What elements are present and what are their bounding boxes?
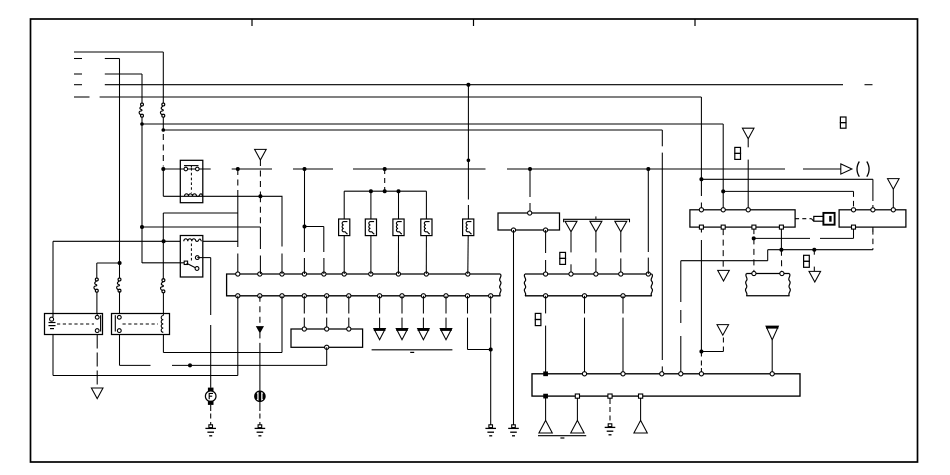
wire y124 (142, 123, 723, 125)
wire R2 out (197, 257, 210, 259)
wire x163 to coil (162, 169, 164, 196)
ECM strip1 bottom pin 8 (400, 294, 404, 298)
wire x781 drop (780, 229, 782, 250)
ECM strip2 top pin 3 (594, 272, 598, 276)
inline connector sq low (535, 313, 541, 319)
wire y169 seg3 (293, 168, 333, 170)
wire x545 to strip2 (545, 230, 547, 253)
ECM strip1 bottom pin 2 (258, 294, 262, 298)
B2 contact top (117, 315, 121, 319)
B1 contact top (95, 315, 99, 319)
ECM strip1 top pin 1 (236, 272, 240, 276)
wire x119 fuse to box2 (119, 291, 121, 313)
node x648 y169 (646, 167, 650, 171)
wire x53 drop (52, 241, 54, 313)
node x384 y191 (383, 189, 387, 193)
wire pin6 drop (348, 296, 350, 314)
ignition switch box R (839, 210, 906, 227)
main box bottom pin d (639, 394, 643, 398)
wire pin1 drop (237, 296, 239, 376)
relay R2 contact in (184, 261, 187, 264)
wire x371 drop (370, 191, 372, 219)
ground triangle G2 (396, 329, 408, 340)
wire pin12 drop (490, 296, 492, 314)
wire x753 dashed a (753, 229, 755, 238)
ign L top pin 3 (746, 208, 750, 212)
wire x648 drop (647, 169, 649, 252)
wire x304 drop (304, 169, 306, 227)
node x304 y226 (303, 225, 307, 229)
wire battery feed x163 (162, 52, 164, 103)
wire gnd drop a (545, 396, 547, 420)
harness arrow down (257, 327, 263, 333)
wire x119 lower (119, 335, 121, 366)
node x468 y160 (467, 159, 471, 163)
ECM strip1 top pin 10 (466, 272, 470, 276)
ECM strip1 top pin 6 (342, 272, 346, 276)
wire y352 link (163, 352, 282, 354)
triangle connector T5 (742, 128, 754, 139)
ground triangle G1 (374, 329, 386, 340)
ground bus underline (372, 349, 453, 351)
wire y169 seg4 (353, 168, 486, 170)
wire inj4 to pin (425, 236, 427, 274)
fuse F2 (118, 278, 121, 281)
wire gnd drop c (609, 398, 611, 404)
relay R1 actuator dashed (190, 168, 192, 193)
wire x238 dashed drop (237, 169, 239, 196)
node x701 y351 (699, 350, 703, 354)
wire x753 dashed b (753, 238, 755, 273)
wire y241 left (53, 240, 180, 242)
fuel pump motor F (208, 388, 214, 392)
wire y213 link (163, 212, 238, 214)
wire x781 dashed (780, 250, 782, 274)
wire x282 drop (281, 196, 283, 246)
node x530 y169 (528, 167, 532, 171)
main box bottom pin c (608, 394, 612, 398)
ground up-triangle b (571, 420, 584, 433)
top border tick 3 (694, 19, 696, 26)
ign R top pin 1 (851, 208, 855, 212)
wire y349 link (468, 349, 491, 351)
component box B2 (112, 314, 170, 335)
ECM strip1 top pin 5 (322, 272, 326, 276)
bus line D (105, 84, 843, 86)
wire y263 to R2 (142, 262, 184, 264)
wire T5 drop (747, 139, 749, 148)
ground triangle G3 (418, 329, 430, 340)
chassis ground x513 (512, 425, 516, 428)
relay R1 box (180, 160, 203, 202)
ign R bottom tick (872, 227, 874, 232)
node x142 y124 (140, 122, 144, 126)
ground triangle mid (717, 325, 729, 336)
triangle trio bar (564, 219, 630, 222)
bus line A (74, 51, 163, 53)
wire R1 coil out (163, 195, 282, 197)
pump motor P (255, 391, 265, 401)
connector C1 bottom pin b (544, 228, 548, 232)
node x238 y169 (236, 167, 240, 171)
wire x384 dashed (384, 169, 386, 191)
wire y191 link (723, 190, 853, 192)
relay R1 coil (185, 194, 197, 196)
wire x398 drop (398, 191, 400, 219)
node x753 y238 (752, 236, 756, 240)
node x371 y191 (369, 189, 373, 193)
wire x513 to ground (513, 230, 515, 425)
bus line E (100, 96, 702, 98)
B2 contact bottom (117, 329, 121, 333)
node x304 y169 (303, 167, 307, 171)
ECM strip2 outline (525, 273, 652, 275)
wire T4 drop (620, 232, 622, 253)
B1 sensor symbol (50, 317, 54, 321)
wire y249 link (768, 249, 873, 251)
wire x723 tri tail (722, 336, 724, 351)
triangle connector T3 (590, 221, 602, 232)
wire x97 below box1 (96, 335, 98, 389)
bus line C stub (74, 73, 82, 75)
ground up-triangle d (634, 420, 647, 433)
wire y375 link (53, 375, 238, 377)
bus line C (105, 73, 142, 75)
ign L bottom pin 1 (699, 225, 703, 229)
wire T6 drop (892, 189, 894, 208)
ECM strip2 top pin 4 (619, 272, 623, 276)
inline connector sq T5 (735, 147, 741, 153)
wire y260 link (681, 260, 768, 262)
wire pin2 dashed drop b (259, 332, 261, 346)
wire x702 to ign (700, 179, 702, 196)
B1 contact bar (100, 315, 102, 331)
relay R2 actuator dashed (190, 244, 192, 262)
ECM strip1 top pin 9 (424, 272, 428, 276)
ECM strip1 bottom pin 12 (489, 294, 493, 298)
node x119 y263 (118, 261, 122, 265)
harness arrow triangle (766, 326, 778, 340)
wire x662 long (661, 153, 663, 360)
connector box C1 (498, 213, 560, 230)
ECM strip1 bottom pin 1 (236, 294, 240, 298)
chassis ground pump P (258, 425, 262, 428)
bus line B stub (74, 58, 82, 60)
wire x163 fuse to node (162, 118, 164, 132)
injector 4 (421, 219, 432, 236)
wire x163 box2 drop (162, 335, 164, 353)
harness connector box (747, 273, 790, 275)
wire x344 corner (343, 191, 345, 219)
ECM strip2 bottom pin 2 (582, 294, 586, 298)
wire motorP to gnd (259, 402, 261, 412)
wire box3 to y365 (326, 347, 328, 365)
harness connector pin a (752, 271, 756, 275)
injector 2 (365, 219, 376, 236)
node x260 y196 (258, 194, 262, 198)
wire x701 to box (700, 352, 702, 369)
fuse F1 (162, 103, 165, 106)
ign R top pin 3 (891, 208, 895, 212)
ECM strip2 top pin 5 (646, 272, 650, 276)
ECM strip1 bottom pin 7 (378, 294, 382, 298)
ECM strip1 bottom pin 3 (280, 294, 284, 298)
ground triangle G4 (440, 329, 452, 340)
wire y169 seg5 (507, 168, 785, 170)
ign R bottom pin 1 (852, 225, 856, 229)
main box top pin sq (544, 372, 548, 376)
inline connector sq T2 (560, 252, 566, 258)
wire x853 lower (853, 229, 855, 238)
chassis ground x610 (608, 424, 612, 427)
wire x853 drop (853, 191, 855, 207)
node x163 y241 (162, 239, 166, 243)
top border tick 1 (251, 19, 253, 26)
ECM strip1 bottom pin 11 (465, 294, 469, 298)
ign L bottom pin 4 (779, 225, 783, 229)
ECM strip1 bottom pin 5 (325, 294, 329, 298)
main box top pin d (660, 372, 664, 376)
injector 3 (393, 219, 404, 236)
wire x545 lower (545, 296, 547, 314)
main box bottom pin sq (544, 394, 548, 398)
wire x723 lower dashed (722, 229, 724, 270)
ECM strip1 top pin 2 (258, 272, 262, 276)
wire x584 lower (584, 296, 586, 314)
wire T2 drop b (570, 264, 572, 274)
wire y169 seg2 (232, 168, 272, 170)
wire x723 corner drop (722, 124, 724, 191)
ECM strip1 bottom pin 6 (347, 294, 351, 298)
wire y238 link b (820, 237, 854, 239)
main box top pin f (699, 372, 703, 376)
B1 dashed link (57, 323, 94, 325)
wire y238 link a (754, 237, 810, 239)
wire x304 to pin (303, 227, 305, 253)
injector 1 (339, 219, 350, 236)
wire gnd drop d (640, 398, 642, 420)
main box bottom pin b (575, 394, 579, 398)
off-page parens (857, 162, 859, 177)
wire x97 fuse to box1 (96, 292, 98, 313)
wire x814 dashed (813, 250, 815, 256)
sensor box B3 top pin c (347, 327, 351, 331)
main harness box (532, 374, 800, 396)
relay R1 contact bar (184, 165, 199, 167)
wire x238 lower drop (237, 254, 239, 275)
wire x702 bus drop (700, 97, 702, 179)
node x490 y349 (489, 348, 493, 352)
ECM strip1 outline (227, 274, 501, 296)
wire x723 to ign (722, 191, 724, 207)
wire feed x119 (119, 59, 121, 278)
wire x260 node to y227 (259, 196, 261, 227)
connector C1 top pin (528, 211, 532, 215)
node x163 y130 (162, 128, 166, 132)
wire x163 y213 to y241 (162, 213, 164, 279)
bus line D stub (74, 84, 82, 86)
relay R2 contact up (195, 256, 199, 260)
wire T3 drop (595, 232, 597, 253)
wire x701 lower solid (700, 240, 702, 352)
node x702 y179 (699, 177, 703, 181)
top border tick 2 (473, 19, 475, 26)
bus line E stub (74, 96, 90, 98)
wire y169 relay segment (163, 168, 210, 170)
relay R2 coil (184, 239, 196, 241)
bus line D break stub (865, 84, 873, 86)
wire y226 branch (305, 226, 324, 228)
fuse F3 (141, 103, 144, 106)
wire pin2 to motor (259, 346, 261, 391)
B2 dashed link (123, 323, 159, 325)
wire pin9 drop (422, 296, 424, 314)
wire x814 dashed b (813, 267, 815, 272)
wire pin11 drop (467, 296, 469, 314)
wire y169 seg6 (803, 168, 841, 170)
bus line B (105, 58, 120, 60)
sensor box B3 (291, 329, 363, 347)
wire inj2 to pin (370, 236, 372, 274)
wire x210 drop lower (210, 325, 212, 388)
inline connector sq x814 (804, 255, 810, 261)
wire y227 (142, 226, 260, 228)
wire pin7 drop (379, 296, 381, 314)
ECM strip1 bottom pin 10 (444, 294, 448, 298)
wire x323 to pin (323, 227, 325, 253)
wire pump to gnd (210, 405, 212, 411)
wire pin4 drop (303, 296, 305, 314)
wire gnd drop b (576, 398, 578, 420)
wire x468 drop (467, 85, 469, 200)
wire x767 corner (767, 250, 769, 261)
triangle connector T1 (255, 149, 267, 160)
relay R2 switch arm (187, 263, 197, 268)
ign L bottom pin 3 (752, 225, 756, 229)
wire x163 fuse to box2b (162, 293, 164, 314)
ECM strip1 bottom pin 4 (302, 294, 306, 298)
wire pin5 drop (326, 296, 328, 314)
ECM strip2 top pin 1 (544, 272, 548, 276)
ECM strip1 top pin 3 (280, 272, 284, 276)
relay R2 box (180, 236, 203, 278)
wire x545 lower b (545, 326, 547, 374)
relay R1 contact b (196, 167, 200, 171)
ign L bottom pin 2 (721, 225, 725, 229)
main box top pin c (621, 372, 625, 376)
wire pin10 drop (445, 296, 447, 314)
wire x238 solid drop (237, 196, 239, 247)
injector 5 (463, 219, 474, 236)
ign L top pin 2 (721, 208, 725, 212)
wire T2 drop (570, 232, 572, 253)
relay R1 contact a (184, 167, 188, 171)
chassis ground pump F (209, 425, 213, 428)
wire y351 branch (701, 351, 723, 353)
ECM strip1 top pin 7 (369, 272, 373, 276)
wire pin2 dashed drop (259, 296, 261, 327)
node y365 (188, 363, 192, 367)
ground up-triangle a (539, 420, 552, 433)
connector C1 bottom pin a (511, 228, 515, 232)
main box top pin e (679, 372, 683, 376)
wire inj3 to pin (397, 236, 399, 274)
wire y365 link b (172, 364, 327, 366)
wire y365 link a (120, 364, 151, 366)
wire inj5 to pin (467, 236, 469, 274)
wire x662 corner (661, 130, 663, 146)
ECM strip1 top pin 4 (302, 272, 306, 276)
node x814 y249 (812, 248, 816, 252)
off-page arrow (841, 164, 852, 174)
fuse F5 (95, 278, 98, 281)
wire feed x142 (141, 74, 143, 103)
sensor box B3 bottom pin (325, 345, 329, 349)
wire T5 drop b (747, 160, 749, 208)
wire x210 drop upper (210, 258, 212, 315)
ign L top pin 1 (699, 208, 703, 212)
B2 coil symbol (161, 316, 163, 333)
wire x872 lower dashed (872, 229, 874, 250)
B1 contact bottom (95, 329, 99, 333)
ECM strip1 top pin 8 (396, 272, 400, 276)
node x723 y191 (721, 189, 725, 193)
wire R2 coil out (203, 240, 238, 242)
ign R top pin 2 (871, 208, 875, 212)
wire x97 through box (96, 314, 98, 316)
node x163 y169 (161, 167, 165, 171)
node x142 y227 (140, 225, 144, 229)
ground triangle ign2 (809, 271, 821, 282)
ECM strip2 top pin 2 (569, 272, 573, 276)
wire y191 injector feed (344, 190, 426, 192)
wire x163 dashed (162, 134, 164, 167)
wire x53 lower (52, 335, 54, 376)
wire x142 below fuse (141, 118, 143, 264)
chassis ground x490 (489, 425, 493, 428)
inline connector sq bus (840, 117, 846, 123)
wire pin8 drop (401, 296, 403, 314)
wire inj1 to pin (343, 236, 345, 274)
sensor box B3 top pin a (302, 327, 306, 331)
wire y179 link (701, 178, 873, 180)
wire y130 (163, 129, 662, 131)
ECM strip2 bottom pin 1 (544, 294, 548, 298)
B2 contact bar (114, 315, 116, 331)
triangle connector T6 (888, 179, 900, 190)
node x384 y169 (383, 167, 387, 171)
node x781 y249 (779, 248, 783, 252)
fuse F4 (162, 279, 165, 282)
ground underline (538, 435, 586, 437)
wire x680 drop (680, 261, 682, 302)
ignition key (814, 216, 824, 221)
node x398 y191 (397, 189, 401, 193)
component box B1 (45, 314, 103, 335)
triangle connector T2 (565, 221, 577, 232)
triangle connector T4 (615, 221, 627, 232)
wire x872 drop (872, 179, 874, 201)
wire x701 lower dashed (700, 229, 702, 232)
main box top pin b (582, 372, 586, 376)
ground triangle left (91, 388, 103, 399)
wire y263 branch (97, 262, 120, 264)
node x468 bus (466, 83, 470, 87)
ECM strip1 bottom pin 9 (421, 294, 425, 298)
wire x260 tri to node (259, 160, 261, 196)
ECM strip2 bottom pin 3 (621, 294, 625, 298)
wire x530 drop (529, 169, 531, 197)
